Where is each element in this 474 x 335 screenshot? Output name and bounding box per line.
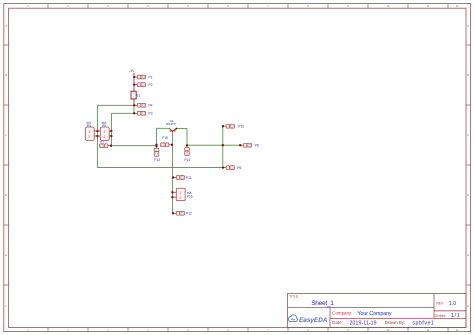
svg-text:EasyEDA: EasyEDA [299, 317, 328, 324]
svg-text:spbfve1: spbfve1 [412, 321, 434, 327]
svg-text:P1: P1 [148, 75, 152, 79]
svg-text:Drawn By:: Drawn By: [385, 320, 405, 325]
svg-text:C: C [5, 134, 7, 137]
svg-text:Sheet:: Sheet: [435, 313, 447, 318]
svg-text:P13: P13 [154, 158, 160, 162]
svg-text:2: 2 [179, 196, 181, 200]
svg-text:TITLE:: TITLE: [289, 295, 299, 299]
svg-text:P9: P9 [102, 124, 106, 128]
svg-text:P2: P2 [148, 83, 152, 87]
svg-text:P12: P12 [186, 212, 192, 216]
svg-text:1.0: 1.0 [449, 301, 457, 307]
svg-text:Your Company: Your Company [358, 311, 393, 317]
svg-text:P14: P14 [184, 158, 190, 162]
svg-text:C: C [467, 134, 469, 137]
svg-text:Sheet_1: Sheet_1 [311, 300, 334, 307]
svg-text:-3V: -3V [129, 69, 135, 73]
svg-text:P10: P10 [238, 125, 244, 129]
svg-text:P5: P5 [87, 124, 91, 128]
svg-text:D: D [5, 194, 7, 197]
svg-text:D: D [467, 194, 469, 197]
svg-text:REV: REV [436, 302, 444, 306]
svg-text:P3: P3 [148, 112, 152, 116]
svg-text:P8: P8 [255, 144, 259, 148]
svg-text:9013TP: 9013TP [166, 122, 176, 126]
svg-text:P11: P11 [186, 176, 192, 180]
svg-text:P15: P15 [162, 136, 168, 140]
svg-text:1: 1 [179, 191, 181, 195]
svg-text:P16: P16 [187, 194, 193, 198]
svg-text:P4: P4 [148, 104, 152, 108]
svg-text:P7: P7 [100, 140, 104, 144]
svg-text:P6: P6 [237, 166, 241, 170]
svg-text:Date:: Date: [332, 320, 343, 325]
svg-text:Company:: Company: [332, 311, 352, 316]
svg-text:1/1: 1/1 [451, 313, 460, 319]
svg-text:2019-11-19: 2019-11-19 [350, 321, 377, 327]
svg-text:R1: R1 [136, 94, 140, 98]
